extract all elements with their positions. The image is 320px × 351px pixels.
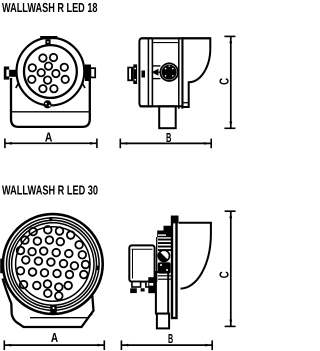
dim A1 [5,139,97,149]
bracket boat [3,279,94,328]
rings [7,218,100,311]
LEDs [28,54,69,93]
bottom bar 1 [140,105,183,107]
inner ring [24,45,77,98]
svg-text:WALLWASH R LED 30: WALLWASH R LED 30 [2,183,98,198]
plate 2 [172,217,177,318]
svg-text:A: A [45,130,53,145]
svg-text:WALLWASH R LED 18: WALLWASH R LED 18 [2,0,98,15]
right tab 1 [85,65,95,82]
foot 2 [157,314,169,329]
dim C2 [225,211,236,326]
connector 1 [127,64,145,84]
dim B2 [121,340,212,350]
left tab 1 [4,67,17,80]
back wall 1 [151,39,153,107]
outer circle [3,214,103,314]
yoke [11,78,90,127]
plate lines 1 [178,37,180,109]
svg-text:B: B [166,130,171,145]
dim C1 [224,36,235,128]
driver box 2 [129,245,154,281]
top bar 1 [141,37,210,39]
knob 1 [160,62,178,81]
arm 2 [156,272,168,314]
hinge 2 [148,277,155,293]
stem 1 [159,106,176,128]
feet 2 [132,282,141,287]
base top line [30,314,92,318]
knob bracket lines [152,65,160,67]
top screw 1 [40,36,57,45]
arrow 1 [151,69,160,76]
svg-text:C: C [216,77,231,84]
tabs 2 [0,259,4,274]
top notch 2 [49,217,52,221]
side view 2 [129,216,211,329]
svg-text:C: C [216,271,231,278]
bottom screw 1 [44,100,52,108]
visor 2 fill [179,223,211,289]
housing 1 [139,38,152,106]
housing right edge [147,39,149,106]
svg-text:B: B [168,331,173,346]
side view 1 [139,37,210,128]
outer circle [17,38,85,106]
yoke under-arc [16,66,85,88]
fins column 2 [157,226,171,282]
svg-text:A: A [51,330,59,345]
dim B1 [120,139,211,149]
feet marks 2 [130,288,137,293]
LEDs [17,226,90,300]
bottom screw 2 [50,306,57,314]
front view 2 [3,214,103,327]
base top line [12,111,90,113]
front view 1 [11,38,90,127]
dim A2 [4,340,104,350]
visor 1 [183,38,211,107]
